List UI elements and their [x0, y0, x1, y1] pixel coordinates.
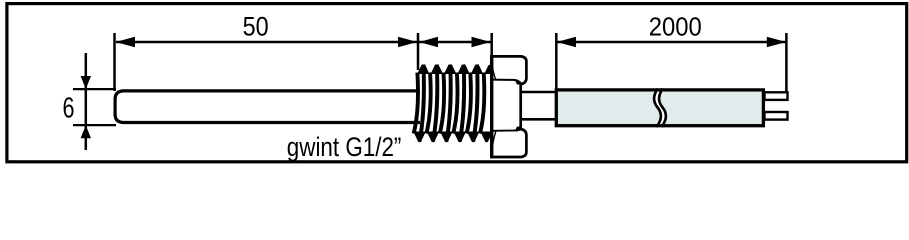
hex chamfer line bottom	[492, 129, 521, 131]
dimension 6: up arrowhead	[81, 125, 91, 138]
dimension 50: right arrowhead	[398, 37, 417, 47]
dimension 2000: extension line right	[785, 33, 788, 92]
border frame	[7, 4, 907, 162]
svg-text:50: 50	[243, 11, 269, 41]
cable	[556, 90, 763, 126]
hex left face arc bottom	[492, 131, 496, 153]
hex chamfer line top	[492, 80, 521, 84]
hex left face arc top	[492, 60, 496, 80]
dimension 6: down arrowhead	[81, 76, 91, 89]
dimension 6: vertical dimension line	[85, 53, 88, 150]
dimension 2000: dimension line	[557, 41, 786, 44]
dimension 2000: extension line left (above cable)	[555, 33, 558, 89]
neck bottom line	[520, 118, 557, 121]
neck top line	[520, 91, 557, 94]
cable break curve left	[654, 89, 661, 127]
cable break gap (white)	[655, 92, 667, 124]
dimension 2000: right arrowhead	[767, 37, 786, 47]
dimension 6: top extension tick	[73, 88, 116, 90]
dimension 6: bottom extension tick	[73, 124, 116, 126]
hex chamfer junction blob top	[515, 79, 522, 85]
probe tube (sheath)	[115, 91, 420, 123]
dimension 50: left arrowhead	[116, 37, 136, 47]
thread dimension: extension line right (above hex)	[490, 33, 493, 57]
hex chamfer junction blob bottom	[515, 126, 522, 131]
wire lead top	[765, 92, 788, 100]
svg-text:gwint G1/2”: gwint G1/2”	[287, 132, 402, 162]
dimension 2000: left arrowhead	[557, 37, 576, 47]
cable break curve right	[659, 89, 666, 127]
thread dimension: right arrowhead	[472, 37, 491, 47]
svg-text:2000: 2000	[649, 12, 702, 42]
thread top teeth (crest arches)	[417, 65, 496, 74]
thread dimension: extension line (continues into thread left edge)	[417, 33, 420, 70]
thread dimension: dimension line	[419, 41, 492, 44]
hex nut body (white underlay)	[492, 56, 527, 157]
thread bottom teeth	[413, 132, 493, 143]
dimension 50: extension line left	[113, 33, 116, 91]
hex nut left edge (thread boundary)	[490, 55, 493, 158]
dimension 50: dimension line	[116, 41, 417, 44]
thread G1/2 (crest bars)	[414, 65, 485, 142]
wire lead bottom	[765, 112, 788, 120]
svg-text:6: 6	[63, 92, 75, 124]
thread dimension: left arrowhead	[419, 37, 438, 47]
